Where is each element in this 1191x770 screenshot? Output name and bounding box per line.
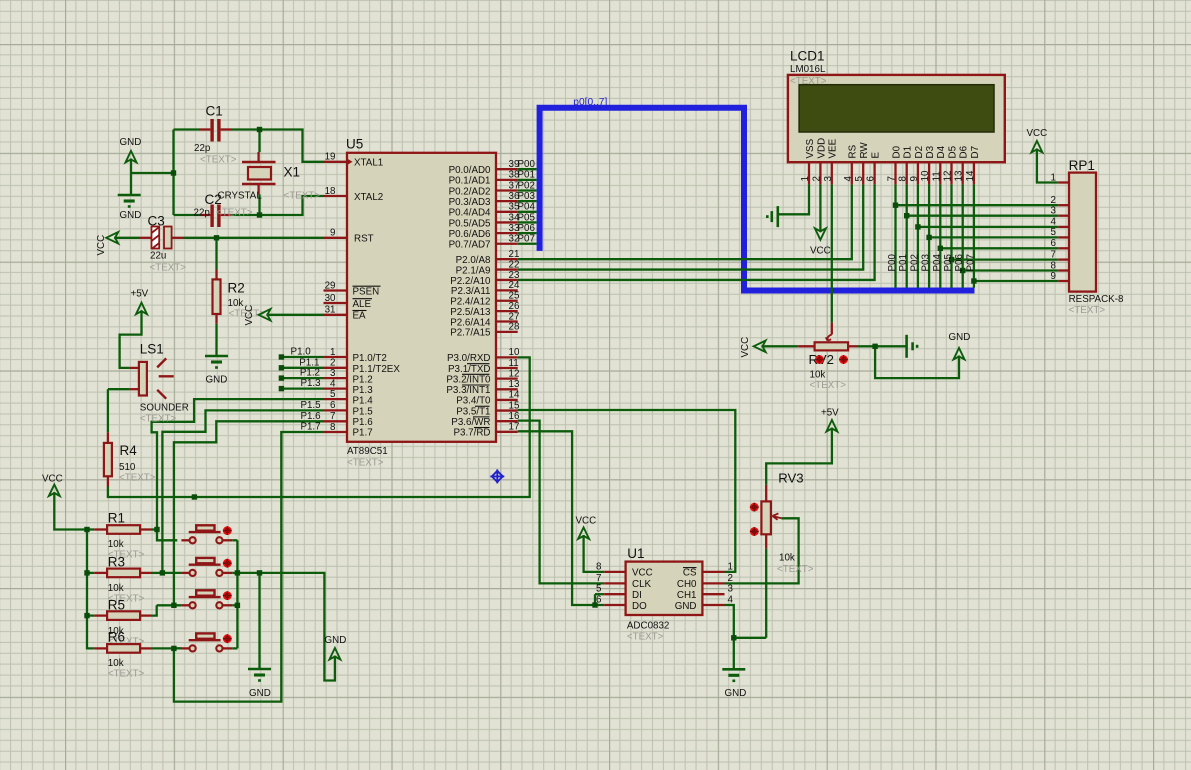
wire P06 to bus	[518, 232, 537, 234]
pin U5.28	[496, 331, 518, 333]
button S2	[189, 558, 232, 576]
pin RP1.3	[1058, 226, 1069, 228]
ground right of RV2	[905, 335, 908, 358]
bus p0[0..7]	[540, 108, 975, 291]
svg-text:VEE: VEE	[828, 138, 839, 158]
pin U5.7	[324, 420, 348, 422]
pin U5.8	[324, 431, 348, 433]
power GND arrow top-left	[126, 151, 137, 163]
pin button left	[181, 539, 189, 541]
svg-text:VCC: VCC	[1027, 128, 1048, 139]
svg-text:P0.0/AD0: P0.0/AD0	[449, 165, 491, 176]
svg-text:U1: U1	[627, 546, 644, 561]
pin U5.2	[324, 367, 348, 369]
wire D4 to RP1.6	[940, 247, 1058, 249]
pin U5.4	[324, 387, 348, 389]
svg-text:R5: R5	[108, 598, 125, 613]
svg-text:<TEXT>: <TEXT>	[627, 632, 664, 643]
pin LCD	[851, 162, 853, 184]
svg-text:5: 5	[1051, 227, 1057, 238]
pin LCD	[862, 162, 864, 184]
svg-text:<TEXT>: <TEXT>	[777, 564, 814, 575]
svg-text:P1.1/T2EX: P1.1/T2EX	[353, 364, 401, 375]
svg-text:D0: D0	[891, 145, 902, 158]
svg-text:P2.6/A14: P2.6/A14	[450, 317, 491, 328]
power VCC left rail	[49, 485, 60, 497]
wire D7 to bus	[973, 184, 975, 287]
svg-text:P02: P02	[518, 180, 535, 191]
svg-text:ALE: ALE	[353, 299, 372, 310]
svg-text:P04: P04	[932, 254, 943, 272]
svg-text:CH0: CH0	[677, 579, 697, 590]
junction	[872, 344, 877, 349]
pin resistor left	[94, 572, 107, 574]
pin U5.1	[324, 356, 348, 358]
wire VDD to VCC	[819, 184, 821, 232]
svg-text:P04: P04	[518, 202, 536, 213]
wire T1 to U1 CS	[518, 410, 736, 572]
pin U5.14	[496, 399, 518, 401]
wire VCC to RV2	[762, 345, 799, 347]
svg-text:RS: RS	[848, 144, 859, 158]
crystal X1	[242, 162, 276, 184]
svg-text:LS1: LS1	[140, 342, 164, 357]
wire D3 to RP1.5	[929, 236, 1058, 238]
svg-text:P1.0: P1.0	[291, 347, 312, 358]
wire RV3 bottom tee	[734, 637, 766, 639]
svg-text:P3.2/INT0: P3.2/INT0	[446, 374, 491, 385]
pin U5.32	[496, 243, 518, 245]
pin button right	[223, 647, 233, 649]
wire D5 to RP1.7	[952, 258, 1059, 260]
pin U5.18	[324, 195, 348, 197]
svg-text:GND: GND	[249, 688, 271, 699]
svg-text:12: 12	[509, 368, 520, 379]
svg-text:LM016L: LM016L	[790, 64, 826, 75]
svg-text:26: 26	[509, 301, 520, 312]
pin RP1.8	[1058, 280, 1069, 282]
svg-text:P03: P03	[518, 191, 536, 202]
button S4	[189, 633, 232, 651]
wire rail branch	[87, 528, 94, 530]
svg-text:P3.3/INT1: P3.3/INT1	[446, 385, 490, 396]
power GND arrow right of buttons	[329, 648, 340, 660]
svg-text:RESPACK-8: RESPACK-8	[1069, 294, 1124, 305]
wire U1 GND	[725, 605, 734, 669]
wire to C2 left	[174, 214, 200, 216]
svg-text:P1.3: P1.3	[300, 378, 321, 389]
power VCC at RP1	[1031, 141, 1042, 153]
pin U5.17	[496, 431, 518, 433]
wire RST to R2	[215, 238, 217, 270]
junction	[84, 527, 89, 532]
pin R1.2	[140, 528, 152, 530]
junction	[235, 603, 240, 608]
ground under U1	[722, 668, 745, 671]
svg-text:R2: R2	[228, 281, 245, 296]
pin R5.2	[140, 614, 151, 616]
wire P1.6 to R5/button	[174, 421, 324, 605]
resistor R2	[213, 279, 221, 314]
svg-text:3: 3	[1051, 206, 1057, 217]
wire R5 jog down	[151, 605, 157, 615]
wire P02 to bus	[518, 189, 537, 191]
wire P01 to bus	[518, 179, 537, 181]
pin LS1.2	[130, 388, 139, 390]
svg-text:23: 23	[509, 270, 520, 281]
wire rail branch	[87, 614, 94, 616]
wire P00 to bus	[518, 168, 537, 170]
wire buttons common column	[236, 540, 238, 648]
node P1.3 end	[279, 386, 284, 391]
pin LS1.1	[130, 367, 139, 369]
svg-text:P00: P00	[518, 159, 536, 170]
origin marker	[490, 469, 504, 483]
svg-text:7: 7	[1051, 249, 1056, 260]
wire buttons to GND arrow	[237, 573, 335, 681]
pin button left	[181, 647, 189, 649]
wire P07 to bus	[518, 243, 537, 245]
svg-text:2: 2	[1051, 195, 1056, 206]
svg-text:D4: D4	[936, 145, 947, 158]
svg-text:P1.7: P1.7	[300, 422, 320, 433]
svg-text:R4: R4	[120, 443, 138, 458]
svg-text:VCC: VCC	[810, 246, 831, 257]
svg-text:25: 25	[509, 291, 520, 302]
svg-text:VCC: VCC	[576, 516, 597, 527]
svg-text:D3: D3	[925, 145, 936, 158]
junction D1	[904, 213, 909, 218]
svg-text:3: 3	[823, 176, 834, 182]
pin U5.24	[496, 289, 518, 291]
pin button right	[223, 539, 233, 541]
svg-text:12: 12	[943, 171, 954, 182]
svg-text:P02: P02	[909, 254, 920, 271]
svg-text:RV3: RV3	[778, 471, 803, 486]
svg-text:P1.6: P1.6	[300, 411, 321, 422]
pin U1 right	[702, 582, 724, 584]
wire WR to U1 CLK	[518, 421, 605, 584]
svg-text:22p: 22p	[194, 208, 211, 219]
svg-text:510: 510	[119, 462, 136, 473]
svg-text:D6: D6	[959, 145, 970, 158]
junction	[214, 235, 219, 240]
pin resistor left	[94, 614, 107, 616]
svg-text:P0.3/AD3: P0.3/AD3	[449, 197, 491, 208]
wire to DI	[595, 593, 604, 595]
svg-text:XTAL2: XTAL2	[354, 192, 383, 203]
svg-text:GND: GND	[120, 210, 142, 221]
wire VSS to ground	[778, 184, 809, 214]
pin U5.37	[496, 189, 518, 191]
pin R2.1	[215, 270, 217, 280]
pin U5.22	[496, 268, 518, 270]
pin C3.1	[140, 237, 152, 239]
pin U5.11	[496, 367, 518, 369]
pin LCD	[939, 162, 941, 184]
wire CH0 to RV3 wiper	[725, 518, 799, 583]
pin RV3.1	[765, 485, 767, 502]
wire GND arrow to ground	[130, 159, 132, 196]
svg-text:1: 1	[800, 176, 811, 181]
svg-text:<TEXT>: <TEXT>	[150, 263, 187, 274]
IC U1 ADC0832	[626, 562, 703, 615]
ground near C1	[118, 194, 141, 197]
pin U5.6	[324, 409, 348, 411]
pin U5.34	[496, 221, 518, 223]
svg-text:11: 11	[509, 358, 519, 369]
svg-text:P0.7/AD7: P0.7/AD7	[449, 240, 491, 251]
pin U1 left	[604, 593, 625, 595]
svg-text:6: 6	[1051, 238, 1057, 249]
svg-text:<TEXT>: <TEXT>	[216, 208, 253, 219]
svg-text:VCC: VCC	[740, 337, 751, 358]
pin LCD	[873, 162, 875, 184]
pin U5.23	[496, 279, 518, 281]
wire C3 to RST	[183, 237, 324, 239]
pin button left	[181, 604, 189, 606]
wire EA to VCC arrow	[266, 314, 323, 316]
junction	[257, 212, 262, 217]
pin R6.2	[140, 647, 151, 649]
pin U5.38	[496, 179, 518, 181]
svg-text:16: 16	[509, 411, 520, 422]
wire P03 to bus	[518, 200, 537, 202]
pin RV3.3	[765, 534, 767, 548]
wire VEE to RV2	[831, 184, 833, 322]
pin resistor left	[94, 647, 107, 649]
svg-text:EA: EA	[353, 311, 367, 322]
junction	[154, 527, 159, 532]
svg-text:10k: 10k	[810, 370, 826, 381]
ground at LCD VSS	[776, 206, 779, 227]
wire P1.5 to R3/button	[162, 410, 323, 573]
svg-text:PSEN: PSEN	[353, 286, 380, 297]
junction	[84, 570, 89, 575]
pin U5.13	[496, 388, 518, 390]
wire P1.4 to R1/button	[152, 399, 324, 540]
svg-text:10k: 10k	[108, 583, 124, 594]
wire rail branch	[87, 572, 94, 574]
junction	[171, 170, 176, 175]
svg-text:10k: 10k	[228, 298, 244, 309]
svg-text:P1.3: P1.3	[353, 385, 374, 396]
svg-text:E: E	[871, 152, 882, 159]
svg-text:GND: GND	[120, 137, 142, 148]
pin X1.1	[257, 152, 259, 162]
svg-text:+5V: +5V	[821, 408, 839, 419]
wire P04 to bus	[518, 211, 537, 213]
svg-text:22: 22	[509, 259, 520, 270]
svg-text:8: 8	[330, 422, 336, 433]
wire RV2 to ground	[858, 345, 906, 347]
svg-text:10k: 10k	[108, 658, 124, 669]
power VCC left of C3	[106, 232, 118, 244]
pin LCD	[906, 162, 908, 184]
svg-text:RP1: RP1	[1069, 158, 1095, 173]
svg-text:P1.5: P1.5	[300, 400, 321, 411]
resistor R6	[107, 644, 140, 653]
pin C2.2	[221, 214, 232, 216]
pin U5.12	[496, 378, 518, 380]
svg-text:8: 8	[1051, 260, 1057, 271]
junction	[171, 603, 176, 608]
svg-text:1: 1	[1051, 172, 1056, 183]
node P1.2 end	[279, 375, 284, 380]
power +5V at LS1	[136, 303, 147, 315]
pin U5.29 PSEN	[324, 289, 348, 291]
svg-text:R1: R1	[108, 511, 125, 526]
wire P2.0 to LCD RS	[518, 184, 852, 259]
svg-text:21: 21	[509, 249, 520, 260]
svg-text:4: 4	[1051, 217, 1057, 228]
svg-text:8: 8	[596, 561, 602, 572]
pin LCD	[973, 162, 975, 184]
wire P1.3 stub	[283, 387, 324, 389]
svg-text:LCD1: LCD1	[790, 49, 825, 64]
svg-text:6: 6	[866, 176, 877, 182]
svg-text:13: 13	[954, 170, 965, 181]
wire button right	[232, 572, 237, 574]
svg-text:7: 7	[596, 573, 601, 584]
wire VCC rail	[54, 492, 94, 648]
wire D0 to RP1.2	[896, 204, 1059, 206]
pin C2.1	[199, 214, 210, 216]
svg-text:P07: P07	[965, 254, 976, 271]
capacitor C1	[210, 119, 220, 142]
svg-text:P06: P06	[518, 223, 536, 234]
power VCC at EA	[259, 309, 271, 321]
svg-text:SOUNDER: SOUNDER	[140, 403, 189, 414]
svg-text:D2: D2	[914, 146, 925, 159]
svg-text:P01: P01	[898, 254, 909, 271]
wire C1 to XTAL1	[232, 130, 324, 162]
svg-text:CLK: CLK	[632, 579, 652, 590]
ground under R2	[205, 355, 228, 358]
power GND arrow right of RV2	[954, 348, 965, 360]
wire C1-C2 left rail	[172, 130, 174, 216]
pin LCD	[917, 162, 919, 184]
wire D3 to bus	[928, 184, 930, 287]
pin U5.35	[496, 211, 518, 213]
wire buttons to ground	[258, 573, 260, 669]
svg-text:P2.4/A12: P2.4/A12	[450, 297, 490, 308]
svg-text:<TEXT>: <TEXT>	[108, 669, 145, 680]
pin U5.31 EA	[324, 314, 348, 316]
junction D3	[926, 235, 931, 240]
svg-text:10k: 10k	[108, 539, 124, 550]
junction D5	[949, 257, 954, 262]
pin U1 right	[702, 593, 724, 595]
svg-text:<TEXT>: <TEXT>	[1069, 305, 1106, 316]
power VCC at RV2	[754, 341, 766, 353]
svg-text:VCC: VCC	[632, 568, 653, 579]
svg-text:P3.0/RXD: P3.0/RXD	[447, 353, 491, 364]
capacitor C2	[210, 205, 220, 228]
wire D1 to RP1.3	[907, 215, 1059, 217]
svg-text:AT89C51: AT89C51	[347, 446, 388, 457]
pin LCD	[831, 162, 833, 184]
wire +5V to RV3	[766, 428, 832, 485]
svg-text:P1.2: P1.2	[300, 368, 320, 379]
svg-text:P2.0/A8: P2.0/A8	[456, 255, 491, 266]
svg-text:P2.1/A9: P2.1/A9	[456, 265, 491, 276]
svg-text:14: 14	[965, 170, 976, 181]
pin RP1.7	[1058, 269, 1069, 271]
resistor pack RP1 RESPACK-8	[1069, 173, 1096, 292]
svg-text:<TEXT>: <TEXT>	[284, 191, 321, 202]
pin U5.36	[496, 200, 518, 202]
wire R4 to RXD	[108, 357, 530, 497]
svg-text:5: 5	[596, 584, 602, 595]
pin U1 right	[702, 604, 724, 606]
svg-text:<TEXT>: <TEXT>	[119, 473, 156, 484]
svg-text:P3.4/T0: P3.4/T0	[456, 396, 491, 407]
svg-text:+5V: +5V	[131, 289, 149, 300]
svg-text:P2.2/A10: P2.2/A10	[450, 276, 491, 287]
svg-text:3: 3	[728, 584, 734, 595]
wire button right	[232, 539, 237, 541]
pin U5.26	[496, 310, 518, 312]
resistor R3	[107, 569, 140, 578]
pin RV2.1	[798, 345, 814, 347]
wire R6 to junction	[151, 647, 181, 649]
svg-text:18: 18	[325, 186, 336, 197]
svg-text:10k: 10k	[779, 553, 795, 564]
pin U5.3	[324, 377, 348, 379]
wire D7 to RP1.9	[974, 280, 1058, 282]
wire down to R4	[107, 389, 109, 432]
junction D7	[971, 278, 976, 283]
pin RP1.5	[1058, 247, 1069, 249]
wire DI-DO tie	[594, 594, 596, 605]
svg-text:24: 24	[509, 280, 520, 291]
wire X1 top	[258, 130, 260, 153]
svg-text:27: 27	[509, 311, 520, 322]
svg-text:8: 8	[898, 176, 909, 182]
wire button right	[232, 604, 237, 606]
svg-text:9: 9	[330, 228, 335, 239]
wire R5 jog	[157, 604, 174, 606]
svg-text:<TEXT>: <TEXT>	[140, 414, 177, 425]
svg-text:2: 2	[811, 176, 822, 181]
svg-text:VCC: VCC	[244, 305, 255, 326]
svg-text:P0.2/AD2: P0.2/AD2	[449, 186, 491, 197]
junction	[257, 570, 262, 575]
svg-text:P3.1/TXD: P3.1/TXD	[448, 364, 490, 375]
pin U5.30 ALE	[324, 302, 348, 304]
wire +5V to LS1	[120, 310, 142, 368]
wire button right	[232, 647, 237, 649]
svg-text:30: 30	[325, 293, 336, 304]
junction	[592, 602, 597, 607]
svg-text:D5: D5	[947, 145, 958, 158]
wire RD to U1 DO	[518, 431, 605, 605]
svg-text:GND: GND	[725, 688, 747, 699]
pin RP1.6	[1058, 258, 1069, 260]
power VCC above U1	[578, 527, 589, 539]
svg-text:C3: C3	[148, 214, 165, 229]
svg-text:P05: P05	[518, 212, 536, 223]
pin RV2 wiper	[831, 323, 833, 335]
wire RV3 to ground	[765, 549, 767, 638]
svg-text:4: 4	[330, 378, 336, 389]
svg-text:P06: P06	[954, 254, 965, 272]
svg-text:U5: U5	[346, 137, 363, 152]
junction D0	[893, 203, 898, 208]
svg-text:22u: 22u	[150, 251, 166, 262]
svg-text:P00: P00	[887, 254, 898, 272]
